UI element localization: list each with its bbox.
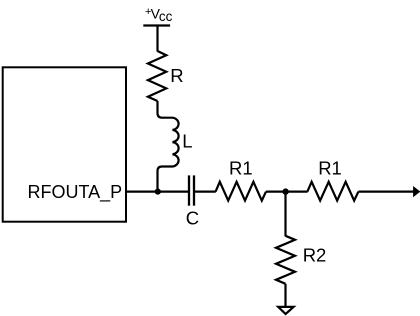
power rail bar [143,24,170,26]
resistor R1 first [216,182,266,201]
svg-text:RFOUTA_P: RFOUTA_P [28,182,123,203]
svg-text:R1: R1 [229,157,253,178]
wire R1 to node B [266,191,308,193]
node A junction dot [155,189,161,195]
svg-text:L: L [182,131,192,152]
wire R2 to ground [284,284,286,307]
wire capacitor to R1 [195,191,216,193]
wire box to node A [126,191,188,193]
IC box [3,67,126,221]
capacitor C right plate [193,175,195,205]
resistor R [148,51,166,101]
output arrowhead [413,186,420,197]
svg-text:cc: cc [159,9,173,24]
svg-text:C: C [186,207,199,228]
resistor R1 second [307,182,358,201]
svg-text:R2: R2 [303,245,327,266]
capacitor C left plate [188,175,190,205]
wire R1 to output arrow [358,190,413,192]
wire node B down to R2 [284,192,286,237]
resistor R2 [276,236,295,284]
node B junction dot [282,188,288,194]
wire Vcc bar to resistor R [156,26,158,52]
svg-text:R1: R1 [318,158,342,179]
svg-text:R: R [170,65,183,86]
power +Vcc label [145,6,173,25]
inductor L [158,101,179,192]
ground [278,307,293,314]
